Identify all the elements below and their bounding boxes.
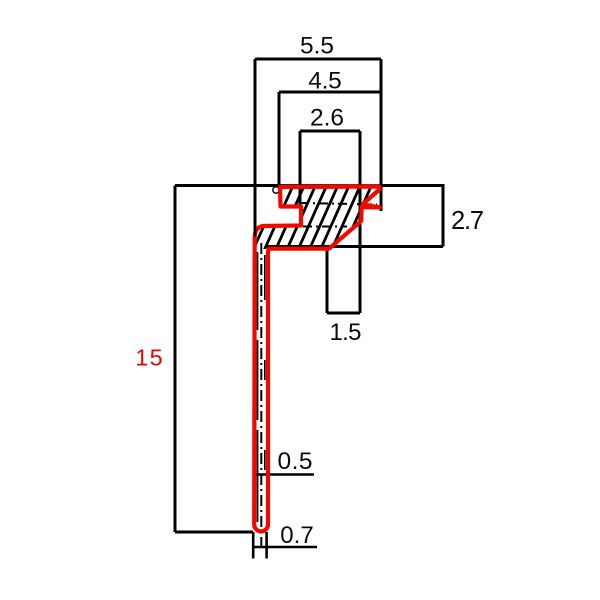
red profile outline	[254, 187, 380, 532]
svg-text:0.5: 0.5	[278, 448, 313, 475]
dimension 5.5 lines	[255, 59, 381, 236]
dimension 4.5 lines	[279, 92, 381, 188]
dimension 2.6 lines	[300, 131, 360, 313]
svg-text:15: 15	[135, 345, 163, 371]
black top outline of profile under red	[255, 184, 381, 186]
stem inner wall left	[257, 252, 259, 522]
stem dash-dot centerline	[260, 243, 262, 546]
black outline of spike under red	[363, 190, 379, 204]
dimension 0.7 line and ticks	[253, 532, 317, 559]
svg-text:2.7: 2.7	[451, 207, 484, 235]
dimension 2.7 box	[267, 186, 443, 247]
svg-text:5.5: 5.5	[300, 33, 334, 60]
svg-text:1.5: 1.5	[330, 319, 362, 346]
dash-dot centerline horizontal lower	[303, 226, 347, 228]
svg-text:4.5: 4.5	[308, 68, 342, 95]
extension line over red at stem left	[254, 225, 257, 237]
top extension line and 15 dimension	[175, 186, 280, 533]
dash-dot centerline horizontal upper	[300, 203, 377, 205]
svg-text:0.7: 0.7	[280, 522, 314, 549]
stem inner wall right	[264, 255, 266, 470]
small circle mark at profile top-left corner	[273, 187, 279, 193]
svg-text:2.6: 2.6	[310, 105, 344, 132]
dimension 1.5 lines	[327, 248, 360, 313]
dimension 0.5 line	[255, 473, 314, 476]
section hatching of profile body	[228, 181, 430, 256]
